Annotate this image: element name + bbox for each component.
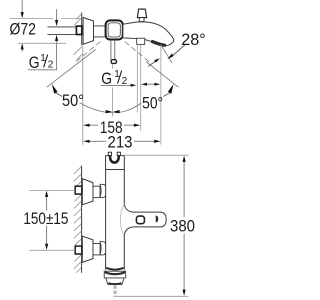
neck cylinder between escutcheon and handle	[94, 26, 106, 37]
50deg swivel: dimension arc	[80, 103, 141, 113]
svg-text:50°: 50°	[62, 91, 84, 110]
G1/2 outlet dimension: double arrow to spout-tip line	[147, 83, 155, 85]
G1/2 label (top-left): up arrow from below pipe	[55, 35, 58, 41]
outlet aerator dark bottom	[108, 283, 121, 284]
upper union cap	[100, 184, 106, 197]
outlet projection lines (to G1/2 and 158 dims)	[136, 44, 138, 112]
wall line (top view)	[81, 12, 83, 45]
svg-text:380: 380	[170, 216, 195, 235]
outlet collar under spout (top view)	[137, 38, 145, 44]
upper union escutcheon cone	[82, 179, 93, 205]
centerline below stem	[112, 64, 114, 116]
lower union cap	[100, 242, 106, 255]
50deg swivel: left dashed ray	[74, 42, 101, 64]
dimension Ø72: bottom arrow	[21, 43, 24, 49]
lever grip mark (dark D)	[156, 216, 159, 223]
diverter knob on spout (top view)	[137, 9, 146, 18]
svg-text:G: G	[29, 53, 40, 72]
50deg swivel: left arc-end arrow (tangent)	[52, 84, 58, 94]
outlet aerator (trapezoid)	[106, 278, 124, 285]
dimension Ø72: bottom extension line	[18, 42, 66, 44]
G1/2 label (top-left): text	[29, 53, 54, 72]
svg-text:213: 213	[108, 133, 133, 152]
lever handle (bottom view)	[133, 212, 166, 227]
50deg swivel: right dashed ray	[125, 42, 152, 64]
upper union nut	[93, 186, 100, 197]
wall hatching (bottom view)	[74, 166, 82, 272]
handle stem (top view projection)	[111, 40, 115, 60]
outlet collar	[104, 271, 126, 278]
shower-hook notch on body top	[111, 152, 118, 159]
svg-text:28°: 28°	[181, 30, 206, 49]
escutcheon cone (top view)	[83, 18, 93, 45]
50deg swivel: right solid ray	[146, 62, 178, 88]
pipe nipple in wall (top view)	[76, 26, 81, 34]
spout tip projection line (28 deg ray 1 / 213 extension)	[160, 45, 162, 145]
dimension Ø72: top arrow	[21, 12, 24, 18]
dimension 213: line and arrows	[89, 140, 156, 142]
outlet collar dark curve	[105, 272, 125, 274]
spout body (top view)	[123, 22, 174, 46]
inlet pipe (top view)	[47, 27, 76, 35]
28deg: outside arrow at vertical ray	[148, 61, 155, 66]
svg-text:2: 2	[48, 59, 54, 70]
G1/2 outlet dimension: underline leader with right arrow	[101, 84, 131, 86]
G1/2 outlet dimension (middle): text	[101, 69, 127, 88]
dimension 380: line and arrows	[183, 161, 185, 291]
28deg: ray 2 from spout tip	[161, 45, 172, 62]
handle stem foot	[111, 60, 116, 64]
square lever handle (inner line)	[108, 23, 120, 37]
28deg: leader from text with arrow	[173, 45, 185, 56]
lower union nut	[93, 244, 100, 255]
dimension 150±15: line and arrows	[46, 196, 48, 245]
50deg swivel: right arc-end arrow (tangent)	[168, 84, 174, 94]
wall hatching above escutcheon (top view)	[75, 14, 83, 26]
dimension 150±15: extension lines	[29, 189, 75, 191]
lever hole (rounded square ring)	[136, 216, 144, 224]
svg-text:50°: 50°	[142, 94, 163, 113]
dimension 380: extension lines	[123, 154, 188, 156]
lower union escutcheon cone	[82, 236, 93, 262]
svg-text:Ø72: Ø72	[9, 20, 36, 39]
svg-text:150±15: 150±15	[23, 209, 68, 228]
lever escutcheon silhouette (faint)	[120, 204, 124, 236]
outlet: shading at body bottom	[106, 268, 124, 270]
spout aerator tip (dark band, top view)	[153, 42, 165, 46]
upper pipe nipple in wall	[75, 186, 82, 194]
dimension Ø72: leader line above	[21, 0, 23, 14]
faucet body (bottom view)	[106, 156, 133, 270]
wall hatching below escutcheon (top view)	[74, 47, 83, 60]
diverter knob stem	[139, 18, 144, 22]
wall line (bottom view)	[81, 166, 83, 273]
50deg arc: centerline arrows	[106, 110, 113, 113]
dimension 158: line and arrows	[89, 124, 136, 126]
extension line from wall to 158/213 dims	[82, 46, 84, 145]
dimension Ø72: top extension line	[10, 17, 82, 19]
lower pipe nipple in wall	[75, 246, 82, 254]
50deg swivel: left solid ray	[47, 50, 96, 88]
square lever handle (top view, outer)	[106, 20, 123, 39]
body top seam	[106, 169, 125, 171]
outlet center marks	[114, 285, 116, 296]
G1/2 label (top-left): down leader to pipe	[56, 9, 58, 21]
